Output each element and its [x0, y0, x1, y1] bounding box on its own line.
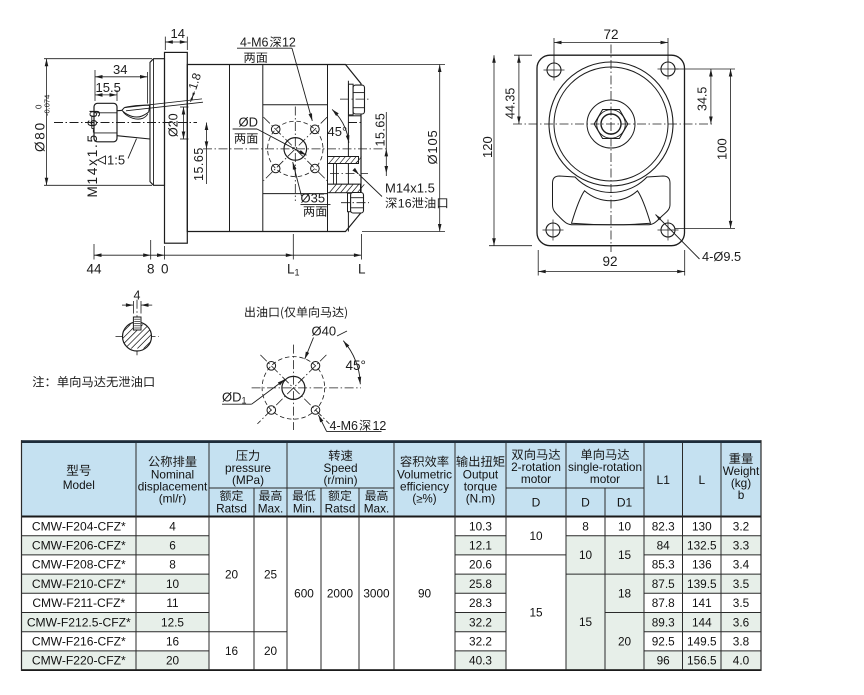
outlet center hole	[282, 376, 305, 399]
svg-text:156.5: 156.5	[687, 654, 717, 668]
svg-text:20.6: 20.6	[469, 558, 492, 572]
svg-text:CMW-F210-CFZ*: CMW-F210-CFZ*	[32, 577, 126, 591]
svg-text:149.5: 149.5	[687, 635, 717, 649]
svg-text:3000: 3000	[363, 587, 390, 601]
dimension 34 shaft length	[147, 72, 149, 104]
svg-text:3.3: 3.3	[733, 539, 750, 553]
front flange outline	[537, 55, 685, 246]
baseline dimension 44-8-0-L1-L	[93, 244, 95, 260]
header sub Ratsd/Max pressure	[220, 490, 243, 501]
body section line 1	[229, 65, 231, 232]
outlet 45 degree arc dimension	[343, 341, 360, 385]
port face vertical centerline	[294, 107, 296, 202]
svg-text:Model: Model	[63, 478, 95, 492]
svg-text:D1: D1	[617, 496, 633, 510]
svg-text:D: D	[581, 496, 590, 510]
svg-text:motor: motor	[521, 472, 551, 486]
pocket inner trapezoid	[572, 191, 651, 225]
svg-text:(ml/r): (ml/r)	[159, 492, 187, 506]
table data rows	[27, 519, 750, 667]
dimension 14 flange width	[164, 37, 166, 50]
svg-text:20: 20	[225, 567, 239, 581]
svg-text:34: 34	[113, 62, 127, 77]
svg-text:b: b	[738, 488, 745, 502]
svg-text:87.5: 87.5	[652, 577, 675, 591]
svg-text:L: L	[698, 473, 705, 487]
svg-text:3.4: 3.4	[733, 558, 750, 572]
port face horizontal centerline	[203, 148, 389, 150]
dimension 15.65 right	[385, 112, 387, 176]
drain port cross-section hatching bottom	[328, 184, 365, 193]
svg-text:16: 16	[166, 635, 180, 649]
svg-text:12: 12	[372, 419, 386, 433]
main shaft centerline	[54, 122, 197, 124]
svg-text:1.8: 1.8	[186, 71, 205, 92]
svg-text:40.3: 40.3	[469, 654, 492, 668]
svg-text:15: 15	[579, 615, 593, 629]
header sub Min/Ratsd/Max speed	[293, 490, 316, 501]
svg-text:89.3: 89.3	[652, 615, 675, 629]
svg-text:Ratsd: Ratsd	[216, 502, 247, 516]
hex nut M14 on shaft	[94, 103, 117, 142]
svg-text:3.5: 3.5	[733, 596, 750, 610]
svg-text:4-M6: 4-M6	[330, 419, 359, 433]
drain port cross-section hatching top	[328, 157, 362, 164]
svg-text:44.35: 44.35	[504, 88, 518, 119]
svg-text:18: 18	[618, 587, 632, 601]
table header background	[22, 443, 762, 517]
svg-text:14: 14	[171, 26, 185, 41]
svg-text:-0.074: -0.074	[43, 95, 52, 116]
svg-text:20: 20	[166, 654, 180, 668]
table outer border and grid lines	[21, 440, 762, 671]
svg-text:M14x1.5-6g: M14x1.5-6g	[85, 108, 100, 197]
svg-text:44: 44	[87, 262, 103, 277]
svg-text:motor: motor	[590, 472, 620, 486]
dimension 92 flange width	[537, 250, 539, 276]
svg-text:20: 20	[264, 644, 278, 658]
svg-text:Ratsd: Ratsd	[325, 502, 356, 516]
outlet title text	[245, 306, 347, 319]
svg-text:Ø20: Ø20	[167, 113, 181, 137]
leader and label M14x1.5 drain port	[359, 175, 382, 197]
body section line 3	[327, 65, 329, 232]
center hub outer circle	[587, 100, 635, 148]
dimension 120 flange height	[489, 245, 532, 247]
center hex	[594, 110, 628, 139]
svg-text:92: 92	[603, 254, 618, 269]
hex inscribed circle	[597, 110, 626, 139]
svg-text:12.5: 12.5	[161, 615, 184, 629]
svg-text:15: 15	[618, 548, 632, 562]
pump body outline	[187, 65, 361, 232]
svg-text:132.5: 132.5	[687, 539, 717, 553]
outlet bolt circle (dashed)	[262, 357, 325, 420]
header cell Output torque	[456, 456, 504, 467]
svg-text:ØD: ØD	[239, 115, 259, 130]
header cell Nominal displacement	[149, 456, 197, 467]
svg-text:Ø80: Ø80	[33, 121, 48, 152]
svg-text:10: 10	[618, 519, 632, 533]
svg-text:120: 120	[480, 136, 495, 158]
svg-text:45°: 45°	[328, 124, 348, 139]
svg-text:CMW-F208-CFZ*: CMW-F208-CFZ*	[32, 558, 126, 572]
bottom hex plug	[348, 193, 364, 214]
dimension 100 hole spacing	[675, 227, 735, 229]
key slot with hatching	[133, 317, 141, 330]
svg-text:34.5: 34.5	[696, 87, 710, 111]
front view horizontal centerline	[513, 123, 714, 125]
svg-text:M14x1.5: M14x1.5	[385, 180, 435, 195]
svg-text:15: 15	[529, 606, 543, 620]
dimension O105 body diameter	[346, 64, 445, 66]
label taper 1:5 with leader	[98, 156, 106, 164]
svg-text:(MPa): (MPa)	[232, 473, 264, 487]
drain port centerline	[330, 173, 368, 175]
table alternating row backgrounds	[22, 536, 762, 670]
front inner circle	[554, 67, 668, 181]
svg-text:6: 6	[169, 539, 176, 553]
svg-text:CMW-F212.5-CFZ*: CMW-F212.5-CFZ*	[27, 615, 131, 629]
45 degree arc dimension	[332, 109, 349, 142]
drain port bore	[328, 157, 361, 193]
svg-text:15.65: 15.65	[374, 113, 388, 147]
svg-text:96: 96	[657, 654, 671, 668]
front view vertical centerline	[610, 45, 612, 253]
dimension O80 boss diameter	[44, 58, 152, 60]
svg-text:L1: L1	[287, 262, 300, 278]
header group single-rotation motor	[581, 449, 629, 460]
svg-text:16: 16	[398, 197, 412, 211]
shaft section horizontal centerline	[116, 336, 159, 338]
outlet vertical centerline	[292, 345, 294, 430]
svg-text:L: L	[358, 262, 366, 277]
svg-text:130: 130	[692, 519, 712, 533]
svg-text:90: 90	[418, 587, 432, 601]
svg-text:8: 8	[582, 519, 589, 533]
svg-text:4-M6: 4-M6	[240, 36, 269, 50]
svg-text:(≥%): (≥%)	[412, 494, 436, 506]
svg-text:Ø35: Ø35	[301, 191, 326, 206]
dimension 15.65 left	[206, 123, 208, 185]
port face block edges	[263, 104, 328, 106]
svg-text:12.1: 12.1	[469, 539, 492, 553]
svg-text:3.6: 3.6	[733, 615, 750, 629]
svg-text:CMW-F211-CFZ*: CMW-F211-CFZ*	[32, 596, 125, 610]
svg-text:100: 100	[715, 138, 730, 160]
svg-text:CMW-F206-CFZ*: CMW-F206-CFZ*	[32, 539, 126, 553]
svg-text:Max.: Max.	[258, 502, 284, 516]
svg-text:15.65: 15.65	[192, 147, 206, 181]
bottom plug centerline	[341, 202, 369, 204]
header group 2-rotation motor	[512, 449, 560, 460]
svg-text:11: 11	[166, 596, 178, 610]
svg-text:136: 136	[692, 558, 712, 572]
port face center hole	[284, 138, 307, 161]
dimension 44.35	[514, 54, 532, 56]
front flange plate	[165, 52, 188, 243]
dimension 15.5	[94, 70, 96, 101]
dimension 1.8 taper	[125, 99, 203, 108]
body section line 4	[347, 81, 349, 232]
center bore circle	[601, 114, 621, 134]
svg-text:CMW-F204-CFZ*: CMW-F204-CFZ*	[32, 519, 126, 533]
svg-text:0: 0	[161, 262, 169, 277]
svg-text:CMW-F220-CFZ*: CMW-F220-CFZ*	[32, 654, 126, 668]
shaft section vertical centerline	[136, 300, 138, 358]
svg-text:92.5: 92.5	[652, 635, 675, 649]
svg-text:2000: 2000	[327, 587, 354, 601]
svg-text:72: 72	[604, 27, 619, 42]
top plug seat line	[348, 115, 361, 117]
svg-text:CMW-F216-CFZ*: CMW-F216-CFZ*	[32, 635, 126, 649]
svg-text:25: 25	[264, 567, 278, 581]
svg-text:141: 141	[692, 596, 712, 610]
dimension 34.5	[675, 68, 735, 70]
svg-text:1:5: 1:5	[107, 153, 125, 168]
svg-text:32.2: 32.2	[469, 615, 492, 629]
svg-text:600: 600	[294, 587, 314, 601]
svg-text:3.5: 3.5	[733, 577, 750, 591]
note text: one-way motor has no drain port	[33, 376, 154, 387]
header group Speed	[329, 450, 353, 461]
svg-text:4: 4	[169, 519, 176, 533]
svg-text:8: 8	[169, 558, 176, 572]
svg-text:3.2: 3.2	[733, 519, 749, 533]
svg-text:12: 12	[282, 36, 296, 50]
svg-text:4-Ø9.5: 4-Ø9.5	[702, 249, 741, 264]
svg-text:Ø105: Ø105	[425, 129, 440, 164]
top hex plug	[349, 84, 365, 115]
port face bolt circle (dashed)	[268, 121, 323, 176]
svg-text:45°: 45°	[346, 358, 366, 373]
svg-text:15.5: 15.5	[96, 80, 121, 95]
svg-text:Max.: Max.	[364, 502, 390, 516]
svg-text:D: D	[532, 496, 541, 510]
svg-text:10: 10	[166, 577, 180, 591]
body section line 2	[262, 65, 264, 232]
shaft section circle with hatching	[106, 322, 167, 351]
svg-text:144: 144	[692, 615, 712, 629]
svg-text:10: 10	[529, 529, 543, 543]
mounting boss	[150, 59, 165, 186]
svg-text:10.3: 10.3	[469, 519, 492, 533]
svg-text:87.8: 87.8	[652, 596, 675, 610]
outlet diagonal centerlines	[260, 355, 329, 424]
svg-text:(r/min): (r/min)	[323, 473, 357, 487]
outlet bolt holes	[267, 362, 276, 371]
bottom pocket outline	[553, 176, 671, 225]
svg-text:3.8: 3.8	[733, 635, 750, 649]
header cell Model	[67, 465, 91, 477]
dimension 72 bolt spacing	[553, 38, 555, 63]
tapered shaft with woodruff key	[117, 109, 122, 111]
svg-text:20: 20	[618, 635, 632, 649]
dimension 4 key width	[132, 301, 134, 314]
svg-text:139.5: 139.5	[687, 577, 717, 591]
svg-text:4.0: 4.0	[733, 654, 750, 668]
svg-text:Min.: Min.	[293, 502, 315, 516]
outlet horizontal centerline	[252, 387, 361, 389]
header cell Weight	[729, 453, 752, 464]
svg-text:efficiency: efficiency	[400, 480, 449, 494]
svg-text:82.3: 82.3	[652, 519, 675, 533]
front bolt holes with center marks	[544, 60, 565, 81]
svg-text:16: 16	[225, 644, 239, 658]
svg-text:L1: L1	[657, 473, 671, 487]
svg-text:10: 10	[579, 548, 593, 562]
header cell Volumetric efficiency	[400, 456, 448, 467]
label 4-O9.5 with leader	[656, 215, 700, 260]
svg-text:25.8: 25.8	[469, 577, 492, 591]
port face diagonal centerlines	[264, 117, 328, 181]
port face bolt holes 4-M6	[271, 125, 280, 134]
svg-text:Ø40: Ø40	[312, 324, 337, 339]
svg-text:4: 4	[134, 289, 141, 303]
top plug centerline	[340, 98, 369, 100]
svg-text:(N.m): (N.m)	[466, 492, 496, 506]
svg-text:28.3: 28.3	[469, 596, 492, 610]
svg-text:ØD1: ØD1	[222, 390, 247, 406]
svg-text:84: 84	[657, 539, 671, 553]
front outer circle	[549, 62, 673, 186]
svg-text:8: 8	[147, 262, 155, 277]
svg-text:32.2: 32.2	[469, 635, 492, 649]
svg-text:85.3: 85.3	[652, 558, 675, 572]
header group pressure	[236, 450, 259, 461]
